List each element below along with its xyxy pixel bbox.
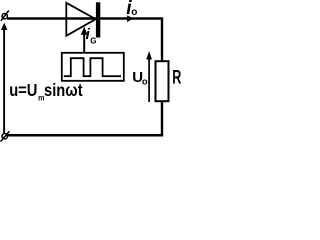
resistor R box <box>156 61 169 101</box>
source label u=Um sin wt <box>9 81 83 103</box>
voltage arrow U_o (up) <box>146 51 152 59</box>
gate wire from pulse box <box>83 30 85 54</box>
diode cathode bar <box>96 2 100 37</box>
terminal bottom-left <box>1 131 10 141</box>
wire bottom horizontal <box>7 134 163 137</box>
diode/SCR triangle (anode) <box>66 3 95 36</box>
svg-text:u=U: u=U <box>9 81 37 100</box>
svg-text:o: o <box>131 7 137 18</box>
wire left vertical <box>3 28 5 133</box>
svg-text:o: o <box>142 77 148 88</box>
square wave symbol <box>64 58 121 76</box>
arrow u polarity (left wire, up) <box>1 23 8 30</box>
terminal top-left <box>1 11 9 21</box>
svg-text:R: R <box>172 67 181 88</box>
gate current arrow i_G (up) <box>81 27 88 35</box>
wire top horizontal <box>7 17 162 19</box>
svg-text:G: G <box>90 36 96 45</box>
pulse generator box <box>62 53 124 81</box>
wire right vertical <box>161 17 163 62</box>
current arrow i_o on top wire <box>127 15 134 22</box>
svg-text:sinωt: sinωt <box>44 81 83 100</box>
